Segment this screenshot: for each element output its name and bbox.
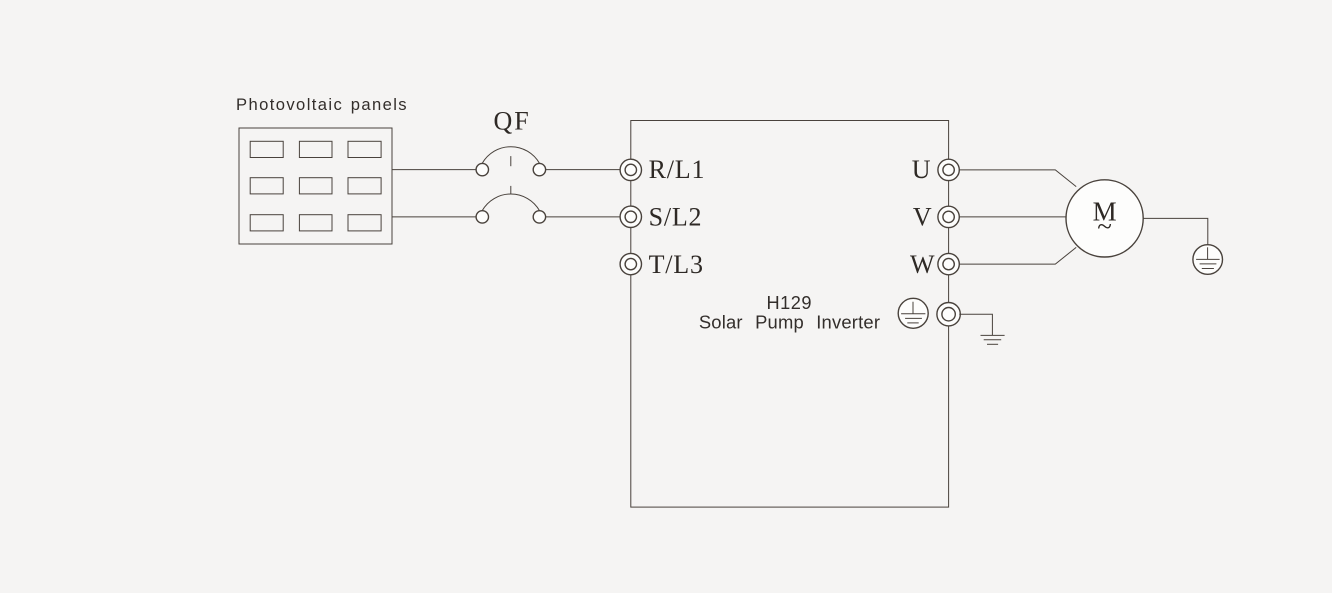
terminal V — [938, 206, 959, 227]
label S/L2 — [649, 202, 703, 231]
svg-text:QF: QF — [494, 107, 531, 136]
earth ground symbol at PE terminal — [981, 335, 1005, 344]
wire PV to QF pole 1 — [392, 169, 476, 171]
label: Photovoltaic panels — [236, 95, 408, 114]
photovoltaic panel array PV — [239, 128, 392, 244]
wire QF pole 1 to terminal R/L1 — [545, 169, 620, 171]
protective earth symbol inside inverter — [898, 298, 928, 328]
wire QF pole 2 to terminal S/L2 — [545, 216, 620, 218]
terminal W — [938, 253, 959, 274]
svg-text:R/L1: R/L1 — [649, 155, 706, 184]
wire U to motor — [959, 170, 1076, 187]
svg-text:V: V — [913, 202, 932, 231]
svg-text:Solar Pump Inverter: Solar Pump Inverter — [699, 311, 880, 332]
breaker QF pole 2 — [476, 186, 546, 223]
label U — [912, 155, 931, 184]
earth symbol at motor — [1193, 245, 1223, 275]
svg-text:U: U — [912, 155, 931, 184]
svg-text:H129: H129 — [767, 293, 812, 313]
breaker QF pole 1 — [476, 147, 546, 176]
wire W to motor — [959, 247, 1076, 264]
inverter box U1 H129 Solar Pump Inverter — [631, 121, 949, 508]
terminal R/L1 — [620, 159, 641, 180]
svg-text:Photovoltaic panels: Photovoltaic panels — [236, 95, 408, 114]
label R/L1 — [649, 155, 706, 184]
label H129 — [767, 293, 812, 313]
terminal PE ground — [937, 303, 960, 326]
motor M — [1066, 180, 1143, 257]
terminal T/L3 — [620, 253, 641, 274]
wire V to motor — [959, 216, 1066, 218]
svg-text:~: ~ — [1097, 212, 1112, 242]
terminal U — [938, 159, 959, 180]
wire PE terminal to earth — [959, 314, 992, 335]
svg-text:W: W — [910, 250, 935, 279]
label Solar Pump Inverter — [699, 311, 880, 332]
wire motor to earth — [1143, 218, 1208, 244]
label T/L3 — [649, 250, 704, 279]
svg-text:S/L2: S/L2 — [649, 202, 703, 231]
wire PV to QF pole 2 — [392, 216, 476, 218]
label QF — [494, 107, 531, 136]
terminal S/L2 — [620, 206, 641, 227]
svg-text:T/L3: T/L3 — [649, 250, 704, 279]
label W — [910, 250, 935, 279]
label V — [913, 202, 932, 231]
